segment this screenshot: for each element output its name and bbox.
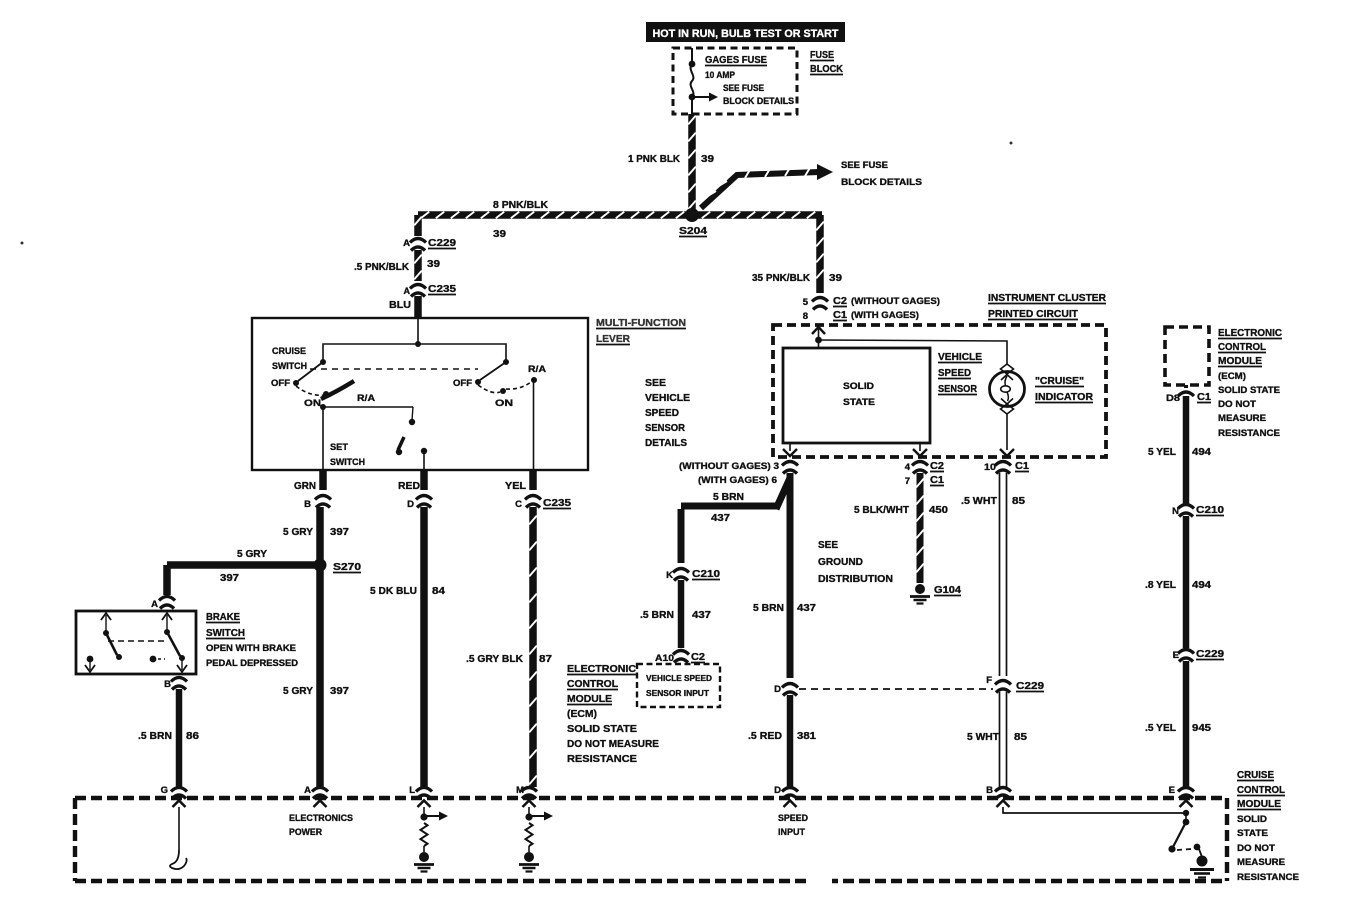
VEHICLE SPEED SENSOR label: [938, 351, 982, 395]
svg-text:SEE: SEE: [818, 539, 838, 551]
wire 5 BRN 437 branch to ECM: [678, 478, 791, 563]
svg-text:GRN: GRN: [294, 480, 316, 492]
svg-text:C2: C2: [833, 295, 847, 307]
svg-text:SENSOR: SENSOR: [645, 422, 685, 434]
cruise switch left pole: [271, 346, 375, 409]
terminal L with pull-up to ground: [409, 785, 448, 872]
SPEED INPUT label: [778, 813, 808, 838]
svg-text:LEVER: LEVER: [596, 333, 630, 345]
svg-text:SOLID STATE: SOLID STATE: [567, 723, 637, 735]
svg-text:C1: C1: [1015, 460, 1029, 472]
svg-text:RESISTANCE: RESISTANCE: [567, 753, 637, 765]
svg-text:SPEED: SPEED: [645, 407, 679, 419]
dashed arrow to SEE FUSE BLOCK DETAILS: [701, 160, 922, 208]
svg-text:A: A: [304, 785, 311, 796]
svg-text:DO NOT: DO NOT: [1218, 399, 1256, 410]
svg-text:397: 397: [330, 526, 349, 538]
svg-text:MEASURE: MEASURE: [1218, 413, 1266, 424]
svg-text:C229: C229: [428, 237, 456, 249]
svg-text:85: 85: [1012, 495, 1025, 507]
svg-text:MODULE: MODULE: [1237, 798, 1281, 810]
connector C1 pin D8: [1166, 385, 1211, 404]
svg-text:PRINTED CIRCUIT: PRINTED CIRCUIT: [988, 308, 1079, 320]
svg-text:.5 YEL: .5 YEL: [1145, 722, 1177, 734]
svg-text:SWITCH: SWITCH: [272, 361, 307, 372]
connector C229 pin F: [986, 675, 1044, 693]
MULTI-FUNCTION LEVER label: [596, 317, 686, 345]
ELECTRONICS POWER label: [289, 813, 353, 838]
svg-text:BLOCK DETAILS: BLOCK DETAILS: [841, 177, 922, 188]
svg-text:437: 437: [692, 609, 711, 621]
svg-text:DETAILS: DETAILS: [645, 437, 687, 449]
solid state box (vehicle speed sensor): [783, 348, 930, 443]
wire .5 GRY BLK 87 to terminal M: [466, 507, 552, 787]
splice S270: [314, 559, 362, 574]
svg-text:SOLID STATE: SOLID STATE: [1218, 385, 1280, 396]
svg-text:5 BRN: 5 BRN: [753, 602, 784, 614]
svg-text:CONTROL: CONTROL: [1237, 784, 1286, 796]
svg-text:G: G: [161, 785, 168, 796]
svg-text:RED: RED: [398, 480, 420, 492]
connector C235 pin A: [410, 283, 456, 297]
svg-text:YEL: YEL: [505, 480, 527, 492]
svg-text:4: 4: [905, 462, 911, 473]
svg-text:A: A: [403, 238, 410, 249]
cruise control module dashed box: [75, 798, 1227, 881]
wire .5 BRN 437: [640, 580, 711, 648]
svg-text:VEHICLE SPEED: VEHICLE SPEED: [646, 673, 712, 683]
svg-text:E: E: [1173, 650, 1179, 661]
connector C2/C1 pins 5/8 at cluster: [803, 295, 940, 322]
svg-text:945: 945: [1192, 722, 1211, 734]
svg-text:G104: G104: [934, 584, 961, 596]
svg-text:10: 10: [984, 462, 996, 473]
svg-text:C210: C210: [1196, 504, 1224, 516]
svg-text:39: 39: [701, 153, 714, 165]
svg-text:HOT IN RUN, BULB TEST OR START: HOT IN RUN, BULB TEST OR START: [653, 28, 839, 40]
connector C210 pin K: [666, 568, 720, 581]
wire 5 YEL 494: [1148, 396, 1211, 504]
svg-text:R/A: R/A: [357, 393, 375, 404]
wire 5 BLK/WHT 450 to ground: [854, 473, 948, 583]
svg-text:CRUISE: CRUISE: [1237, 769, 1274, 781]
connector pin D mid: [774, 684, 798, 696]
terminal A: [304, 785, 328, 807]
svg-text:5 GRY: 5 GRY: [237, 548, 267, 560]
svg-text:450: 450: [929, 504, 948, 516]
svg-text:8 PNK/BLK: 8 PNK/BLK: [493, 199, 548, 211]
svg-text:.8 YEL: .8 YEL: [1145, 579, 1177, 591]
svg-text:39: 39: [493, 228, 506, 240]
svg-text:SEE FUSE: SEE FUSE: [723, 83, 764, 93]
connector C2/C1 pins 4/7: [905, 460, 944, 487]
wire .5 RED 381 to terminal D: [748, 695, 816, 787]
power source banner HOT IN RUN: [646, 22, 845, 42]
svg-text:D8: D8: [1166, 393, 1180, 404]
splice S204: [679, 208, 707, 237]
svg-text:VEHICLE: VEHICLE: [938, 351, 982, 363]
svg-text:(WITH GAGES): (WITH GAGES): [851, 310, 919, 321]
wire 8 PNK/BLK 39 horizontal bus: [418, 199, 822, 240]
ECM label left: [567, 663, 659, 765]
svg-text:DISTRIBUTION: DISTRIBUTION: [818, 573, 893, 585]
stray mark left: [21, 242, 24, 245]
svg-text:7: 7: [905, 476, 910, 487]
brake switch box: [76, 611, 196, 674]
wire 35 PNK/BLK 39 from bus to cluster: [752, 215, 842, 293]
svg-text:10 AMP: 10 AMP: [705, 70, 736, 81]
connector C2 pin A10: [655, 651, 705, 665]
cruise switch right pole: [453, 359, 546, 470]
svg-text:397: 397: [330, 685, 349, 697]
svg-text:C: C: [515, 499, 522, 510]
svg-text:D: D: [407, 499, 414, 510]
svg-text:5 GRY: 5 GRY: [283, 526, 313, 538]
svg-text:1 PNK BLK: 1 PNK BLK: [628, 153, 680, 165]
svg-text:DO NOT: DO NOT: [1237, 843, 1275, 854]
wire .8 YEL 494: [1145, 516, 1211, 648]
fuse GAGES FUSE 10 AMP: [689, 48, 767, 114]
svg-text:GROUND: GROUND: [818, 556, 863, 568]
svg-text:INPUT: INPUT: [778, 827, 805, 838]
svg-text:.5 PNK/BLK: .5 PNK/BLK: [354, 261, 409, 273]
svg-text:E: E: [1169, 785, 1175, 796]
svg-text:ELECTRONIC: ELECTRONIC: [567, 663, 636, 675]
svg-text:SPEED: SPEED: [778, 813, 808, 824]
cluster pin arrows at bottom edge: [783, 443, 1014, 456]
svg-text:ON: ON: [495, 398, 513, 409]
svg-text:BLU: BLU: [389, 299, 411, 311]
lever internal feed wire: [323, 319, 506, 362]
CRUISE CONTROL MODULE label: [1237, 769, 1299, 883]
stray mark right: [1010, 142, 1013, 145]
svg-text:ELECTRONIC: ELECTRONIC: [1218, 327, 1282, 339]
svg-text:5 BRN: 5 BRN: [713, 491, 744, 503]
svg-text:D: D: [774, 785, 781, 796]
svg-text:N: N: [1172, 506, 1179, 517]
svg-text:SET: SET: [330, 442, 348, 453]
scan gap in bottom border: [806, 874, 832, 889]
svg-text:(WITH GAGES) 6: (WITH GAGES) 6: [698, 475, 777, 486]
svg-text:C2: C2: [930, 460, 944, 472]
svg-text:SENSOR: SENSOR: [938, 383, 977, 395]
svg-text:FUSE: FUSE: [810, 49, 834, 61]
svg-text:5: 5: [803, 297, 809, 308]
svg-text:ELECTRONICS: ELECTRONICS: [289, 813, 353, 824]
vehicle speed sensor input dashed box: [637, 664, 720, 707]
svg-text:39: 39: [829, 272, 842, 284]
connector C229 pin E: [1173, 648, 1225, 662]
svg-text:BLOCK: BLOCK: [810, 63, 843, 75]
svg-text:VEHICLE: VEHICLE: [645, 392, 690, 404]
wire 5 GRY 397 to S270: [283, 507, 349, 565]
connector pins 3/6 below cluster: [679, 461, 798, 486]
FUSE BLOCK label: [810, 49, 843, 75]
svg-text:SEE: SEE: [645, 377, 666, 389]
svg-text:S204: S204: [679, 225, 707, 237]
svg-text:.5 BRN: .5 BRN: [640, 609, 674, 621]
wire 5 GRY 397 from S270 to terminal A: [283, 565, 349, 787]
svg-text:B: B: [986, 785, 993, 796]
svg-text:.5 GRY BLK: .5 GRY BLK: [466, 653, 523, 665]
svg-text:MEASURE: MEASURE: [1237, 857, 1285, 868]
svg-text:B: B: [304, 499, 311, 510]
svg-text:5 DK BLU: 5 DK BLU: [370, 585, 417, 597]
ground G104: [910, 584, 961, 604]
fuse block dashed box: [673, 48, 797, 114]
svg-text:437: 437: [711, 512, 730, 524]
svg-text:(ECM): (ECM): [567, 708, 597, 720]
svg-text:C229: C229: [1196, 648, 1224, 660]
connector C229 pin A: [410, 237, 456, 251]
svg-text:ON: ON: [304, 398, 321, 409]
svg-text:GAGES FUSE: GAGES FUSE: [705, 54, 767, 66]
svg-text:35 PNK/BLK: 35 PNK/BLK: [752, 272, 810, 284]
svg-text:SPEED: SPEED: [938, 367, 971, 379]
svg-text:SOLID: SOLID: [1237, 814, 1267, 825]
svg-text:C1: C1: [930, 474, 944, 486]
svg-text:SWITCH: SWITCH: [206, 627, 245, 639]
svg-text:A10: A10: [655, 653, 674, 664]
wire .5 WHT 85 (white wire): [961, 473, 1025, 676]
svg-text:381: 381: [797, 730, 816, 742]
svg-text:C229: C229: [1016, 680, 1044, 692]
svg-text:CONTROL: CONTROL: [1218, 341, 1267, 353]
svg-text:86: 86: [186, 730, 199, 742]
svg-text:INSTRUMENT CLUSTER: INSTRUMENT CLUSTER: [988, 292, 1106, 304]
SEE GROUND DISTRIBUTION note: [818, 539, 893, 585]
cruise switch R/A contact line: [320, 404, 413, 470]
svg-text:STATE: STATE: [1237, 828, 1268, 839]
wire 5 GRY 397 branch to brake switch: [163, 548, 320, 595]
svg-text:DO NOT MEASURE: DO NOT MEASURE: [567, 738, 659, 750]
svg-text:SEE FUSE: SEE FUSE: [841, 160, 888, 171]
svg-text:BRAKE: BRAKE: [206, 611, 240, 623]
svg-text:(ECM): (ECM): [1218, 371, 1246, 382]
wire 5 BRN 437 main vertical: [753, 473, 816, 678]
svg-text:RESISTANCE: RESISTANCE: [1237, 872, 1299, 883]
svg-text:R/A: R/A: [528, 364, 546, 375]
svg-text:SOLID: SOLID: [843, 381, 874, 392]
svg-text:5 GRY: 5 GRY: [283, 685, 313, 697]
svg-text:5 WHT: 5 WHT: [967, 731, 1000, 743]
terminal E: [1169, 785, 1194, 807]
connector C1 pin 10: [984, 460, 1029, 474]
svg-text:.5 WHT: .5 WHT: [961, 495, 998, 507]
terminal B: [986, 785, 1011, 807]
wire .5 YEL 945 to terminal E: [1145, 661, 1211, 787]
svg-text:A: A: [151, 599, 158, 610]
svg-text:K: K: [666, 570, 673, 581]
see fuse block details arrow (inside fuse block): [694, 83, 794, 106]
dashed link D to F: [799, 688, 993, 690]
INSTRUMENT CLUSTER PRINTED CIRCUIT label: [988, 292, 1106, 320]
svg-text:8: 8: [803, 311, 808, 322]
svg-text:D: D: [774, 684, 781, 695]
svg-text:494: 494: [1192, 579, 1211, 591]
svg-text:INDICATOR: INDICATOR: [1035, 391, 1093, 403]
svg-text:RESISTANCE: RESISTANCE: [1218, 428, 1280, 439]
electronic control module dashed box: [1165, 327, 1209, 385]
svg-text:CRUISE: CRUISE: [272, 346, 306, 357]
svg-text:C210: C210: [692, 568, 720, 580]
terminal G: [161, 785, 187, 807]
svg-text:.5 BRN: .5 BRN: [138, 730, 172, 742]
svg-text:C235: C235: [428, 283, 456, 295]
svg-text:(WITHOUT GAGES): (WITHOUT GAGES): [851, 296, 940, 307]
svg-text:F: F: [986, 675, 992, 686]
svg-text:397: 397: [220, 572, 239, 584]
terminal M with pull-up to ground: [516, 785, 553, 872]
svg-text:5 YEL: 5 YEL: [1148, 446, 1177, 458]
svg-text:437: 437: [797, 602, 816, 614]
wire GRN pin B: [294, 470, 331, 510]
svg-text:84: 84: [432, 585, 445, 597]
terminal G internal wire with hook: [170, 807, 187, 869]
cluster internal feed node: [812, 327, 1007, 364]
cruise switch position dashed link: [310, 368, 478, 370]
svg-text:OPEN WITH BRAKE: OPEN WITH BRAKE: [206, 643, 296, 654]
svg-text:L: L: [409, 785, 415, 796]
SEE VEHICLE SPEED SENSOR DETAILS note: [645, 377, 690, 449]
svg-text:OFF: OFF: [271, 378, 290, 389]
svg-text:85: 85: [1014, 731, 1027, 743]
wire RED pin D: [398, 470, 432, 510]
wire 1 PNK BLK 39 from fuse to S204: [628, 114, 714, 212]
wire BLU into lever box: [389, 296, 422, 319]
svg-text:STATE: STATE: [843, 397, 875, 408]
wire 5 DK BLU 84 to terminal L: [370, 507, 445, 787]
svg-text:OFF: OFF: [453, 378, 472, 389]
svg-text:.5 RED: .5 RED: [748, 730, 782, 742]
svg-text:494: 494: [1192, 446, 1211, 458]
svg-text:39: 39: [427, 258, 440, 270]
connector C210 pin N: [1172, 504, 1224, 517]
svg-text:S270: S270: [333, 561, 361, 573]
svg-text:MULTI-FUNCTION: MULTI-FUNCTION: [596, 317, 686, 329]
brake switch connector A: [151, 597, 175, 611]
svg-text:"CRUISE": "CRUISE": [1035, 375, 1084, 387]
set switch: [330, 407, 427, 470]
ECM label right: [1218, 327, 1282, 439]
internal link B to E with switch to ground: [1003, 807, 1214, 878]
svg-text:SWITCH: SWITCH: [330, 457, 365, 468]
brake switch connector B: [164, 678, 187, 691]
svg-text:B: B: [164, 679, 171, 690]
svg-text:C2: C2: [691, 651, 705, 663]
svg-text:BLOCK DETAILS: BLOCK DETAILS: [723, 96, 794, 106]
multi-function lever box: [252, 318, 588, 470]
svg-text:87: 87: [539, 653, 552, 665]
svg-text:MODULE: MODULE: [1218, 355, 1262, 367]
svg-text:CONTROL: CONTROL: [567, 678, 619, 690]
wire YEL pin C connector C235: [505, 470, 571, 510]
CRUISE indicator lamp: [990, 364, 1025, 450]
svg-text:C1: C1: [1197, 391, 1211, 403]
wire .5 PNK/BLK 39 down to lever: [354, 215, 440, 296]
instrument cluster printed circuit dashed box: [773, 325, 1106, 457]
svg-text:MODULE: MODULE: [567, 693, 612, 705]
wire 5 WHT 85 (white wire) to terminal B: [967, 692, 1027, 788]
CRUISE INDICATOR label: [1035, 375, 1093, 403]
svg-text:POWER: POWER: [289, 827, 322, 838]
wire .5 BRN 86 to terminal G: [138, 689, 199, 787]
svg-text:SENSOR INPUT: SENSOR INPUT: [646, 688, 710, 698]
svg-text:(WITHOUT GAGES) 3: (WITHOUT GAGES) 3: [679, 461, 779, 472]
svg-text:C1: C1: [833, 309, 847, 321]
BRAKE SWITCH label: [206, 611, 298, 669]
terminal D speed input: [774, 785, 798, 807]
svg-text:5 BLK/WHT: 5 BLK/WHT: [854, 504, 910, 516]
svg-text:C235: C235: [543, 497, 571, 509]
svg-text:PEDAL DEPRESSED: PEDAL DEPRESSED: [206, 658, 298, 669]
brake switch internals: [85, 613, 187, 672]
